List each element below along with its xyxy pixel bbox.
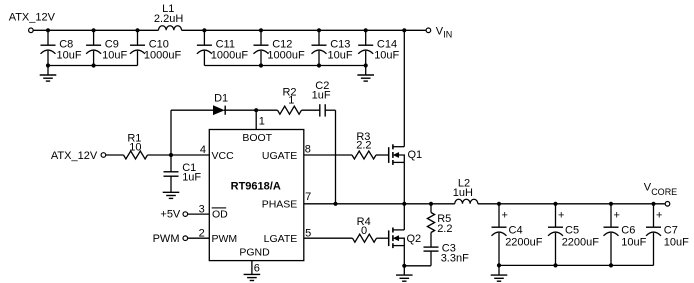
junction bottom rail at C14 [364,63,368,67]
svg-text:2200uF: 2200uF [505,237,543,249]
wire ATX to R1 [106,154,124,156]
junction top rail at C9 [92,28,96,32]
junction top rail at C11 [202,28,206,32]
terminal PWM [183,236,188,241]
svg-text:1000uF: 1000uF [144,49,182,61]
svg-text:UGATE: UGATE [262,150,297,162]
terminal ATX_12V vcc [101,153,106,158]
junction bottom rail at C13 [317,63,321,67]
svg-text:10uF: 10uF [621,237,646,249]
ground output [491,274,508,276]
junction PHASE at R5 [429,202,433,206]
wire ground stem group1 [47,66,49,76]
svg-text:10uF: 10uF [57,49,82,61]
svg-text:+5V: +5V [160,209,181,221]
junction bottom rail at C9 [92,63,96,67]
svg-text:ATX_12V: ATX_12V [51,150,98,162]
terminal +5V [183,212,188,217]
svg-text:7: 7 [305,191,311,203]
wire C2 branch down to PHASE [335,110,337,204]
svg-text:6: 6 [254,263,260,275]
svg-text:8: 8 [305,143,311,155]
wire output rail [478,203,665,205]
svg-text:1uH: 1uH [453,187,473,199]
capacitor C2 [319,104,321,116]
terminal VIN [426,28,431,33]
svg-text:Q2: Q2 [407,233,422,245]
svg-text:PHASE: PHASE [262,199,298,211]
svg-text:+: + [558,210,564,222]
svg-text:PWM: PWM [212,233,238,245]
capacitor C5 [555,204,557,227]
ground Q2 node [396,274,413,276]
svg-text:2.2: 2.2 [356,140,371,152]
svg-text:10uF: 10uF [664,237,689,249]
inductor L2 [455,199,478,204]
resistor R3 [352,151,376,159]
svg-text:LGATE: LGATE [264,233,298,245]
resistor R4 [353,234,377,242]
transistor Q2 [388,230,390,246]
svg-text:C6: C6 [621,225,635,237]
svg-text:2200uF: 2200uF [562,237,600,249]
svg-text:10: 10 [129,142,141,154]
svg-text:ATX_12V: ATX_12V [9,12,56,24]
terminal VCORE [665,202,670,207]
wire PWM to pin2 [188,237,209,239]
resistor R2 [278,106,302,114]
junction top rail at C12 [259,28,263,32]
svg-text:5: 5 [305,227,311,239]
svg-text:IN: IN [443,30,452,40]
svg-text:C7: C7 [664,225,678,237]
junction top rail at C10 [135,28,139,32]
svg-text:BOOT: BOOT [242,132,272,144]
wire PHASE rail [304,203,455,205]
svg-text:0: 0 [361,225,367,237]
svg-text:4: 4 [200,144,206,156]
svg-text:1uF: 1uF [312,90,331,102]
capacitor C13 [318,30,320,45]
capacitor C11 [203,30,205,45]
wire VCC node up to D1 [170,110,172,155]
svg-text:10uF: 10uF [328,49,353,61]
svg-text:1: 1 [288,95,294,107]
svg-text:2.2: 2.2 [437,223,452,235]
resistor R5 [430,204,432,213]
svg-text:1uF: 1uF [182,172,201,184]
transistor Q1 [388,147,390,163]
junction output at C7 [651,202,655,206]
svg-text:Q1: Q1 [408,149,423,161]
svg-text:CORE: CORE [651,187,677,197]
junction bottom at C6 [609,263,613,267]
junction bottom at C4 [497,263,501,267]
wire ground stem Q2 [403,266,405,275]
junction top rail at Q1 drain branch [402,28,406,32]
wire UGATE to R3 [304,154,352,156]
wire bottom rail group2 [204,65,365,67]
wire pin6 PGND stem [251,261,253,275]
svg-text:+: + [614,210,620,222]
svg-text:PWM: PWM [153,233,180,245]
capacitor C9 [93,30,95,45]
capacitor C10 [137,30,139,45]
junction top rail at C13 [317,28,321,32]
wire R2 to C2 [302,109,320,111]
junction VCC node [169,153,173,157]
wire C3 to Q2 source node [404,265,431,267]
ground C1 [163,191,180,193]
capacitor C4 [498,204,500,227]
capacitor C1 [170,155,172,172]
svg-text:+: + [502,210,508,222]
wire pin1 BOOT [255,110,257,129]
junction bottom rail at C8 [46,63,50,67]
svg-text:3.3nF: 3.3nF [441,252,469,264]
wire LGATE to R4 [304,237,353,239]
junction bottom rail at C12 [259,63,263,67]
junction Q2 source ground node [402,264,406,268]
wire C2 to phase drop [325,109,335,111]
wire top rail left of L1 [34,29,159,31]
svg-text:PGND: PGND [239,246,270,258]
wire Q1 drain from VIN rail [403,30,405,146]
svg-text:RT9618/A: RT9618/A [231,181,281,193]
wire BOOT node to R2 [256,109,277,111]
junction top rail at C14 [364,28,368,32]
ground group2 [357,74,374,76]
junction bottom at C5 [553,263,557,267]
capacitor C3 [430,233,432,248]
junction output at C5 [553,202,557,206]
wire ground stem group2 [365,66,367,76]
capacitor C8 [47,30,49,45]
ground group1 [40,74,57,76]
junction output at C4 [497,202,501,206]
wire output bottom rail [499,264,654,266]
svg-text:10uF: 10uF [374,49,399,61]
wire +5V to OD pin [188,213,209,215]
terminal ATX_12V input [29,28,34,33]
junction output at C6 [609,202,613,206]
junction PHASE main node [402,202,406,206]
wire R3 to Q1 gate [376,154,389,156]
svg-text:10uF: 10uF [102,49,127,61]
wire top rail right of L1 [182,29,426,31]
svg-text:1000uF: 1000uF [211,49,249,61]
ground PGND [244,273,261,275]
svg-text:D1: D1 [214,92,228,104]
svg-text:C5: C5 [565,225,579,237]
wire Q2 drain to PHASE [403,204,405,230]
wire R1 to VCC pin [148,154,210,156]
capacitor C7 [653,204,655,227]
wire Q1 source to PHASE [403,162,405,203]
junction PHASE at C2 branch [333,202,337,206]
capacitor C6 [610,204,612,227]
capacitor C12 [260,30,262,45]
wire Q2 source down [403,246,405,266]
resistor R1 [124,151,148,159]
diode D1 [171,109,213,111]
junction top rail at C8 [46,28,50,32]
svg-text:OD: OD [212,208,228,220]
svg-text:1000uF: 1000uF [267,49,305,61]
wire bottom rail group1 [48,65,138,67]
wire ground stem output [498,265,500,275]
wire R4 to Q2 gate [377,237,389,239]
op-amp U1 RT9618/A box [209,130,303,261]
svg-text:2.2uH: 2.2uH [154,13,183,25]
inductor L1 [159,26,182,31]
capacitor C14 [365,30,367,45]
junction BOOT node [254,108,258,112]
svg-text:1: 1 [259,116,265,128]
svg-text:+: + [656,210,662,222]
svg-text:VCC: VCC [212,150,235,162]
svg-text:C4: C4 [509,225,523,237]
